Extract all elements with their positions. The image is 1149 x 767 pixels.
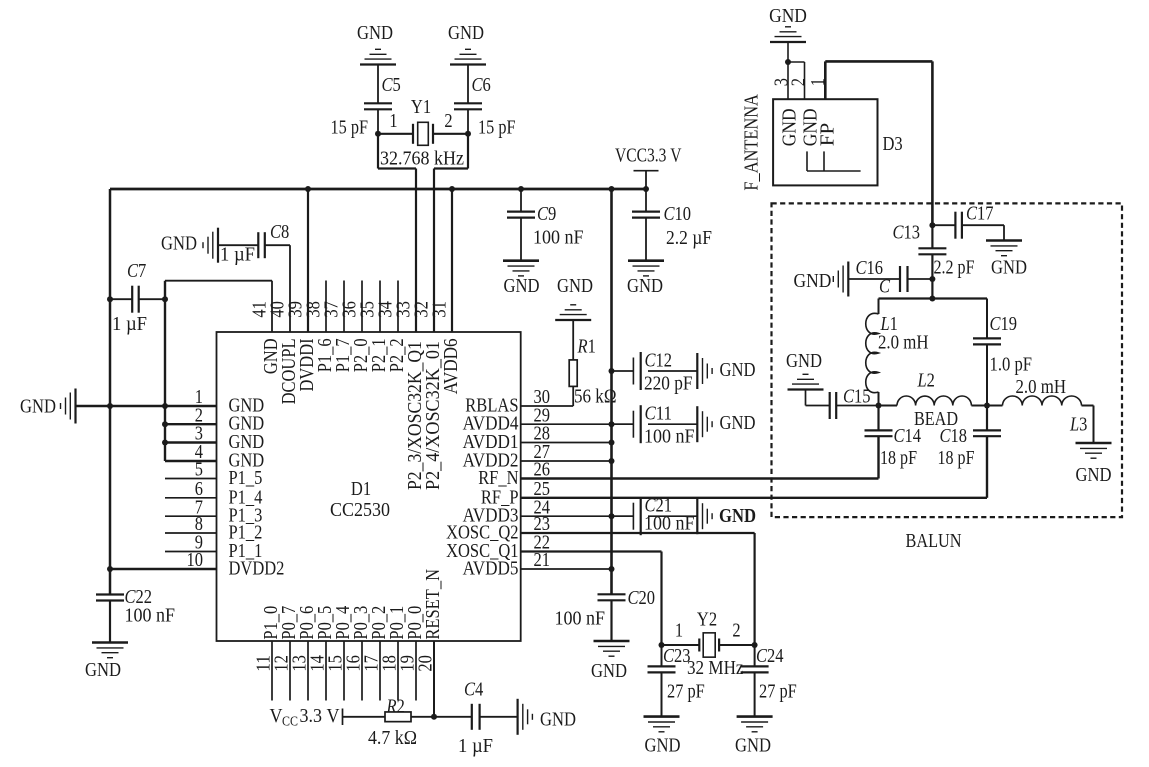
wire node to L1 — [878, 299, 880, 315]
wire pin37 stub — [343, 281, 345, 333]
ground above C15 — [788, 374, 824, 389]
svg-text:GND: GND — [20, 396, 56, 418]
wire C5 stem — [377, 65, 379, 134]
ground above F_ANTENNA — [770, 27, 806, 42]
wire pin23 XOSC_Q2 — [521, 533, 755, 645]
wire pin22 XOSC_Q1 — [521, 552, 662, 646]
capacitor C11 — [633, 405, 640, 443]
svg-text:AVDD6: AVDD6 — [440, 338, 462, 394]
capacitor C8 — [258, 232, 265, 258]
ground below L3 — [1076, 443, 1112, 458]
junction rail2/pin24 — [609, 513, 615, 519]
svg-text:100 nF: 100 nF — [644, 513, 695, 535]
wire C17 right — [962, 225, 1004, 240]
svg-text:CC: CC — [282, 715, 298, 730]
junction Y2 pin1 — [659, 642, 665, 648]
capacitor C19 — [973, 338, 1001, 344]
wire pin3 — [165, 441, 217, 443]
wire pin27 AVDD2 — [521, 460, 612, 462]
wire pin39 DVDD1 to bus — [307, 189, 309, 332]
wire C23 stem — [661, 645, 663, 717]
svg-text:GND: GND — [645, 735, 681, 757]
wire C19 to node3 — [986, 344, 988, 405]
junction rail/pin10 — [107, 566, 113, 572]
capacitor C20 — [598, 594, 626, 600]
wire antenna pin3 — [787, 42, 789, 99]
wire pin31 AVDD6 to bus — [451, 189, 453, 332]
wire C13 stem — [931, 225, 933, 298]
wire C16 left — [848, 278, 900, 280]
junction Y1 pin2 — [465, 131, 471, 137]
wire R1 bottom to pin30 — [521, 386, 574, 406]
ground right of C21 — [697, 498, 712, 534]
wire Y1 pin1 to IC pin33 — [378, 134, 416, 332]
svg-text:2: 2 — [444, 110, 452, 132]
wire pin1 GND — [76, 405, 217, 407]
wire pin8 stub — [165, 532, 217, 534]
svg-text:GND: GND — [504, 275, 540, 297]
ground left of C16 — [833, 262, 848, 297]
junction bus/C9 — [518, 186, 524, 192]
wire L3 right to GND — [1082, 406, 1094, 444]
svg-text:L3: L3 — [1069, 414, 1087, 436]
antenna module D3 — [773, 99, 877, 185]
capacitor C12 — [633, 352, 640, 390]
resistor R2 4.7k — [385, 712, 411, 722]
svg-text:C5: C5 — [382, 74, 401, 96]
wire C24 stem — [754, 645, 756, 717]
svg-text:GND: GND — [627, 275, 663, 297]
capacitor C17 — [955, 212, 962, 239]
wire pin29 AVDD4 — [521, 423, 634, 425]
wire pin5 stub — [165, 478, 217, 480]
svg-text:F_ANTENNA: F_ANTENNA — [741, 94, 763, 191]
wire L2 right — [971, 405, 987, 407]
svg-text:C18: C18 — [940, 425, 968, 447]
junction RESET_N/R2 — [431, 714, 437, 720]
wire C21 right — [648, 515, 697, 517]
ground below C23 — [644, 717, 680, 732]
svg-text:32.768 kHz: 32.768 kHz — [380, 148, 464, 170]
svg-text:DVDD2: DVDD2 — [229, 558, 285, 580]
wire R1 top — [572, 320, 574, 360]
capacitor C22 — [96, 595, 124, 601]
wire pin36 stub — [361, 281, 363, 333]
capacitor C13 — [918, 248, 946, 254]
junction node3 C19/L2/C18 — [984, 403, 990, 409]
ground below C24 — [737, 717, 773, 732]
svg-text:R1: R1 — [577, 336, 596, 358]
wire pin19 stub — [415, 641, 417, 701]
svg-text:100 nF: 100 nF — [644, 426, 695, 448]
wire L1 to node2 — [878, 392, 880, 406]
ground right of C11 — [697, 406, 712, 442]
wire C15 right — [836, 405, 878, 407]
crystal Y2 32MHz — [699, 633, 719, 657]
wire pin12 stub — [289, 641, 291, 701]
svg-text:C6: C6 — [472, 74, 491, 96]
wire C17 left — [932, 224, 955, 226]
svg-text:2.0 mH: 2.0 mH — [878, 332, 929, 354]
svg-text:2.2 pF: 2.2 pF — [934, 257, 975, 279]
wire C18 stem — [986, 406, 988, 431]
wire pin18 stub — [397, 641, 399, 701]
svg-text:C15: C15 — [843, 386, 871, 408]
wire C12 right — [648, 370, 697, 372]
ground right of C4 — [518, 699, 533, 735]
wire pin14 stub — [325, 641, 327, 701]
svg-text:GND: GND — [357, 22, 393, 44]
capacitor C24 — [741, 666, 769, 672]
junction node165/pin2 — [162, 421, 168, 427]
svg-text:GND: GND — [720, 359, 756, 381]
wire C12 left — [612, 370, 634, 372]
svg-text:GND: GND — [991, 257, 1027, 279]
wire C7 left — [110, 298, 132, 300]
svg-text:GND: GND — [540, 709, 576, 731]
wire Y1 pin2 to IC pin32 — [434, 134, 468, 332]
wire pin10 DVDD2 — [110, 568, 217, 570]
svg-text:V: V — [270, 705, 283, 727]
svg-text:CC2530: CC2530 — [330, 499, 390, 521]
capacitor C10 — [632, 212, 660, 218]
wire Y2 pin1 — [662, 644, 700, 646]
junction rail2/pin27 — [609, 458, 615, 464]
wire Y1 left — [378, 133, 413, 135]
svg-text:C19: C19 — [990, 313, 1018, 335]
svg-text:VCC3.3 V: VCC3.3 V — [615, 145, 682, 167]
svg-text:2.0 mH: 2.0 mH — [1016, 376, 1067, 398]
svg-text:D1: D1 — [351, 478, 371, 500]
wire C20 stem — [610, 600, 612, 641]
antenna feed mark inside D3 — [807, 151, 861, 171]
svg-text:100 nF: 100 nF — [125, 605, 176, 627]
svg-text:GND: GND — [794, 270, 832, 292]
wire node-165 vertical — [164, 281, 166, 461]
wire antenna feed pin1 — [825, 61, 932, 225]
wire pin7 stub — [165, 515, 217, 517]
wire C22 stem — [109, 601, 111, 643]
ground below C20 — [594, 641, 630, 656]
svg-text:31: 31 — [429, 301, 451, 318]
ground left of C8 — [203, 228, 218, 263]
svg-text:C20: C20 — [628, 587, 656, 609]
svg-text:C7: C7 — [127, 260, 146, 282]
inductor L1 2.0mH — [866, 313, 879, 392]
ground below C10 — [628, 261, 664, 276]
crystal Y1 32.768kHz — [413, 122, 433, 145]
wire pin25 RF_P to C18 — [521, 436, 987, 497]
svg-text:C24: C24 — [756, 645, 784, 667]
svg-text:C10: C10 — [664, 203, 692, 225]
wire pin20 RESET_N stub — [433, 641, 435, 717]
power terminal VCC3.3V bottom — [342, 709, 344, 726]
svg-text:C8: C8 — [270, 221, 289, 243]
svg-text:Y1: Y1 — [411, 96, 431, 118]
wire pin41 GND-DCOUPL — [165, 281, 272, 332]
junction rail2/pin29 — [609, 421, 615, 427]
junction Y1 pin1 — [375, 131, 381, 137]
svg-text:15 pF: 15 pF — [331, 117, 369, 139]
junction antenna gnd — [785, 59, 791, 65]
wire C10 stem — [645, 189, 647, 261]
junction bus/pin31 — [449, 186, 455, 192]
junction rail/pin1 — [107, 403, 113, 409]
junction bus/rail2 — [609, 186, 615, 192]
ground right of C12 — [697, 353, 712, 389]
junction rail/C7 — [107, 296, 113, 302]
capacitor C15 — [830, 392, 837, 419]
junction node2 L1/L2/C14 — [876, 403, 882, 409]
svg-text:2: 2 — [732, 620, 740, 642]
wire pin24 AVDD3 — [521, 515, 634, 517]
svg-text:C13: C13 — [893, 222, 921, 244]
svg-text:GND: GND — [161, 233, 197, 255]
svg-text:1: 1 — [389, 110, 397, 132]
junction bus/VCC — [643, 186, 649, 192]
junction balun node — [929, 296, 935, 302]
svg-text:C: C — [879, 276, 891, 298]
inductor L2 BEAD — [897, 396, 971, 406]
junction node165/pin1 — [162, 403, 168, 409]
svg-text:C4: C4 — [464, 679, 483, 701]
wire C4 to GND — [480, 716, 518, 718]
wire pin34 stub — [397, 281, 399, 333]
wire R2 to C4 — [411, 716, 472, 718]
wire pin26 RF_N to C14 — [521, 436, 879, 478]
wire pin13 stub — [307, 641, 309, 701]
ground above R1 — [555, 305, 591, 320]
svg-text:18 pF: 18 pF — [880, 447, 917, 469]
wire L2 left — [879, 405, 898, 407]
capacitor C21 — [633, 497, 640, 535]
svg-text:C12: C12 — [645, 350, 673, 372]
junction rail2/pin21 — [609, 566, 615, 572]
svg-text:GND: GND — [719, 505, 756, 527]
svg-text:GND: GND — [786, 350, 822, 372]
capacitor C9 — [507, 212, 535, 218]
wire C8 right to pin40 — [265, 245, 290, 332]
svg-text:C14: C14 — [894, 425, 922, 447]
svg-text:1 µF: 1 µF — [112, 313, 147, 335]
wire pin28 AVDD1 — [521, 442, 612, 444]
junction bus/pin39 — [305, 186, 311, 192]
wire pin15 stub — [343, 641, 345, 701]
svg-text:56 kΩ: 56 kΩ — [574, 386, 617, 408]
svg-text:1 µF: 1 µF — [220, 244, 255, 266]
capacitor C18 — [973, 430, 1001, 436]
ground at pin1 — [61, 389, 76, 424]
wire AVDD rail — [610, 189, 613, 594]
junction rail2/C12 — [609, 368, 615, 374]
wire Y2 pin2 — [719, 644, 755, 646]
svg-text:GND: GND — [735, 735, 771, 757]
svg-text:GND: GND — [591, 660, 627, 682]
wire Y1 right — [433, 133, 468, 135]
junction rail2/pin28 — [609, 440, 615, 446]
capacitor C4 — [472, 704, 480, 730]
svg-text:GND: GND — [448, 22, 484, 44]
svg-text:100 nF: 100 nF — [533, 227, 584, 249]
svg-text:FP: FP — [816, 123, 838, 147]
wire pin4 — [165, 460, 217, 462]
wire C14 stem — [877, 406, 879, 431]
wire node to C19 — [986, 299, 988, 339]
capacitor C16 — [900, 266, 908, 292]
capacitor C5 — [364, 103, 392, 109]
svg-text:4.7 kΩ: 4.7 kΩ — [368, 727, 417, 749]
svg-text:GND: GND — [85, 659, 121, 681]
svg-text:RESET_N: RESET_N — [422, 569, 444, 640]
wire pin2 — [165, 423, 217, 425]
svg-text:18 pF: 18 pF — [938, 447, 975, 469]
svg-text:1.0 pF: 1.0 pF — [990, 354, 1033, 376]
svg-text:27 pF: 27 pF — [759, 681, 797, 703]
wire pin38 stub — [325, 281, 327, 333]
wire balun node — [879, 297, 988, 299]
svg-text:220 pF: 220 pF — [644, 373, 693, 395]
ground above C5 — [360, 49, 396, 64]
ground below C17 — [986, 241, 1022, 256]
svg-text:1: 1 — [807, 78, 829, 86]
svg-text:L2: L2 — [917, 370, 935, 392]
wire VCC to R2 — [343, 716, 386, 718]
svg-text:GND: GND — [779, 108, 801, 146]
balun enclosure (dashed) — [772, 203, 1123, 517]
svg-text:32 MHz: 32 MHz — [687, 657, 744, 679]
wire C7 right — [139, 298, 165, 300]
resistor R1 56k — [569, 360, 577, 387]
svg-text:GND: GND — [720, 412, 756, 434]
wire pin6 stub — [165, 497, 217, 499]
capacitor C14 — [865, 430, 893, 436]
svg-text:1: 1 — [675, 620, 683, 642]
wire pin11 stub — [271, 641, 273, 701]
svg-text:C11: C11 — [645, 403, 673, 425]
wire C9 stem — [520, 189, 522, 261]
svg-text:GND: GND — [557, 275, 593, 297]
capacitor C7 — [132, 286, 139, 313]
IC D1 CC2530 — [217, 332, 521, 641]
inductor L3 2.0mH — [1003, 396, 1082, 406]
wire pin21 AVDD5 — [521, 568, 612, 570]
svg-text:C23: C23 — [663, 645, 691, 667]
svg-text:1 µF: 1 µF — [458, 735, 493, 757]
wire C16 right — [908, 278, 933, 280]
svg-text:100 nF: 100 nF — [555, 608, 606, 630]
wire C8 left — [218, 244, 258, 246]
wire pin9 stub — [165, 551, 217, 553]
junction node165/C7 — [162, 296, 168, 302]
capacitor C6 — [454, 103, 482, 109]
wire C6 stem — [467, 65, 469, 134]
svg-text:AVDD5: AVDD5 — [463, 558, 519, 580]
wire VCC3.3 bus — [110, 188, 646, 191]
ground below C9 — [503, 261, 539, 276]
junction C13/C16 — [929, 276, 935, 282]
capacitor C23 — [648, 666, 676, 672]
wire C11 left — [612, 423, 634, 425]
svg-text:D3: D3 — [883, 133, 903, 155]
svg-text:GND: GND — [1076, 464, 1112, 486]
svg-text:BALUN: BALUN — [906, 530, 962, 552]
power terminal VCC3.3V top — [634, 171, 659, 189]
wire antenna pin2 — [788, 62, 805, 99]
svg-text:GND: GND — [769, 5, 807, 27]
svg-text:27 pF: 27 pF — [667, 681, 705, 703]
wire C11 right — [648, 423, 697, 425]
junction feed/C13/C17 — [929, 222, 935, 228]
wire C21 left — [612, 515, 634, 517]
wire pin35 stub — [379, 281, 381, 333]
junction Y2 pin2 — [752, 642, 758, 648]
svg-text:Y2: Y2 — [697, 609, 717, 631]
ground below C22 — [92, 643, 128, 658]
svg-text:3.3 V: 3.3 V — [300, 705, 340, 727]
wire left GND rail — [109, 189, 112, 595]
svg-text:C9: C9 — [537, 203, 556, 225]
svg-text:R2: R2 — [386, 696, 405, 718]
svg-text:15 pF: 15 pF — [478, 117, 516, 139]
junction node165/pin3 — [162, 440, 168, 446]
wire pin17 stub — [379, 641, 381, 701]
ground above C6 — [450, 49, 486, 64]
svg-text:2.2 µF: 2.2 µF — [666, 227, 712, 249]
svg-text:C17: C17 — [966, 203, 994, 225]
wire L3 left — [987, 405, 1003, 407]
wire pin16 stub — [361, 641, 363, 701]
wire C15 left — [806, 390, 830, 406]
